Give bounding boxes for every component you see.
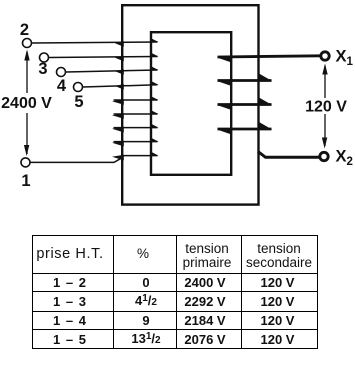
- wire terminal 3 to primary tap (turn 2): [49, 57, 158, 58]
- secondary turn 1 arrowhead: [217, 56, 232, 63]
- primary turn 1 arrowheads: [115, 38, 159, 47]
- primary turn 3 arrowheads: [115, 66, 159, 75]
- primary turn 4 arrowheads: [115, 81, 159, 90]
- secondary turn 3 arrowheads: [217, 98, 272, 111]
- wire terminal 1 to primary winding: [30, 157, 123, 162]
- secondary turn 4 arrowheads: [217, 122, 272, 135]
- dimension arrowhead down (120 V): [322, 138, 327, 149]
- terminal X2: [320, 152, 328, 160]
- primary turn 6 arrowheads: [112, 110, 159, 119]
- svg-text:X2: X2: [336, 148, 353, 169]
- primary turn 5 arrowheads: [112, 96, 159, 105]
- wire terminal 5 to primary tap (turn 4): [83, 85, 158, 87]
- svg-text:4: 4: [57, 77, 67, 95]
- terminal 2: [23, 39, 32, 48]
- terminal 3: [40, 53, 49, 62]
- table of tap settings: [32, 235, 318, 349]
- dimension arrowhead down (2400 V): [24, 145, 29, 156]
- wire terminal 2 to primary tap (turn 1): [32, 42, 158, 43]
- transformer core window (inner rectangle): [151, 32, 231, 175]
- primary turn 2 arrowheads: [115, 53, 159, 62]
- primary turn 9 arrowheads: [112, 152, 159, 161]
- dimension arrow 120 V upper segment: [324, 66, 326, 98]
- terminal 4: [57, 68, 66, 77]
- secondary turn 1 and wire to terminal X1: [218, 56, 321, 57]
- primary turn 7: [114, 127, 158, 129]
- secondary turn 2: [218, 79, 272, 82]
- terminal X1: [321, 52, 329, 60]
- primary turn 9: [122, 155, 158, 157]
- svg-text:2400 V: 2400 V: [1, 95, 52, 112]
- secondary turn 2 arrowheads: [217, 74, 272, 87]
- primary turn 8: [114, 141, 158, 143]
- primary turn 8 arrowheads: [112, 138, 159, 147]
- wire terminal 4 to primary tap (turn 3): [66, 70, 158, 72]
- dimension arrow 2400 V lower segment: [26, 113, 28, 154]
- terminal 5: [74, 83, 83, 92]
- secondary turn 3: [218, 103, 272, 106]
- dimension arrowhead up (120 V): [322, 64, 327, 75]
- primary turn 7 arrowheads: [112, 124, 159, 133]
- primary turn 5: [114, 99, 158, 101]
- svg-text:120 V: 120 V: [305, 99, 347, 116]
- svg-text:5: 5: [74, 93, 83, 111]
- svg-text:2: 2: [20, 21, 29, 39]
- secondary turn 4: [218, 128, 272, 131]
- svg-text:X1: X1: [336, 48, 354, 69]
- dimension arrow 2400 V upper segment: [26, 52, 28, 93]
- primary turn 6: [114, 113, 158, 115]
- dimension arrowhead up (2400 V): [24, 50, 29, 61]
- svg-text:3: 3: [38, 60, 47, 78]
- wire secondary to terminal X2: [258, 152, 320, 158]
- transformer core outer rectangle: [122, 5, 258, 204]
- svg-text:1: 1: [21, 172, 30, 190]
- dimension arrow 120 V lower segment: [324, 114, 326, 146]
- terminal 1: [21, 158, 30, 167]
